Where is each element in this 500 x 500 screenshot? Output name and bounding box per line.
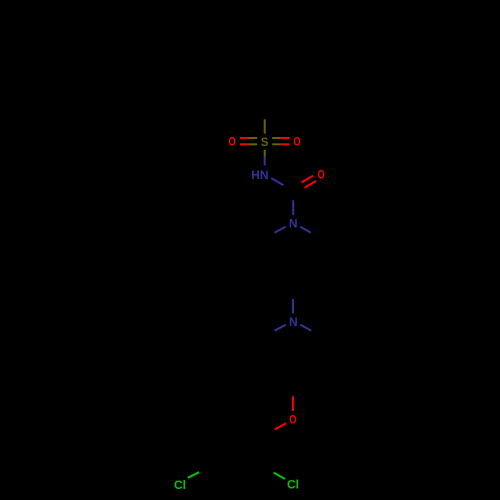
- svg-text:O: O: [318, 168, 325, 182]
- svg-text:O: O: [293, 135, 300, 149]
- wire: S=O right double bond, bottom line red half: [281, 143, 290, 145]
- svg-text:O: O: [289, 413, 296, 427]
- wire: bond phenyl C to S (S-colored half): [264, 119, 266, 133]
- wire: aryl C2 to Cl bond (Cl half, right): [274, 473, 285, 479]
- wire: N1 ring bond to C2 (N half): [274, 227, 285, 233]
- wire: N2 ring bond to C2' (N half): [275, 325, 286, 331]
- wire: S=O right double bond, top line red half: [281, 137, 290, 139]
- wire: C=O double bond, lower red half: [305, 181, 317, 188]
- wire: S=O right double bond, top line S half: [272, 137, 281, 139]
- svg-text:HN: HN: [251, 168, 268, 182]
- svg-text:N: N: [289, 315, 298, 329]
- wire: aryl C4 to Cl bond (Cl half, left): [188, 472, 199, 478]
- wire: piperidine C4' to ether O bond (O half): [292, 396, 294, 411]
- svg-text:Cl: Cl: [174, 478, 186, 492]
- wire: S=O left double bond, top line red half: [240, 137, 249, 139]
- wire: N2 ring bond to C6' (N half): [300, 325, 311, 331]
- wire: N1 ring bond to C6 (N half): [300, 227, 311, 233]
- wire: ether O to aryl C1 bond (O half): [275, 423, 287, 429]
- wire: piperidine C4 to N2 bond (N half): [292, 299, 294, 314]
- svg-text:N: N: [289, 217, 298, 231]
- svg-text:S: S: [261, 135, 269, 149]
- wire: S=O left double bond, bottom line S half: [249, 143, 258, 145]
- wire: S=O left double bond, top line S half: [249, 137, 258, 139]
- wire: S-N bond, N half: [264, 157, 266, 166]
- svg-text:Cl: Cl: [287, 478, 299, 492]
- wire: S=O left double bond, bottom line red half: [240, 143, 249, 145]
- wire: NH to carbonyl C bond (N half): [271, 178, 283, 185]
- wire: C=O double bond, upper red half: [302, 176, 314, 183]
- wire: carbonyl C to piperidine N1 bond (N half): [292, 200, 294, 215]
- wire: S-N bond, S half: [264, 150, 266, 157]
- svg-text:O: O: [229, 135, 236, 149]
- wire: S=O right double bond, bottom line S half: [272, 143, 281, 145]
